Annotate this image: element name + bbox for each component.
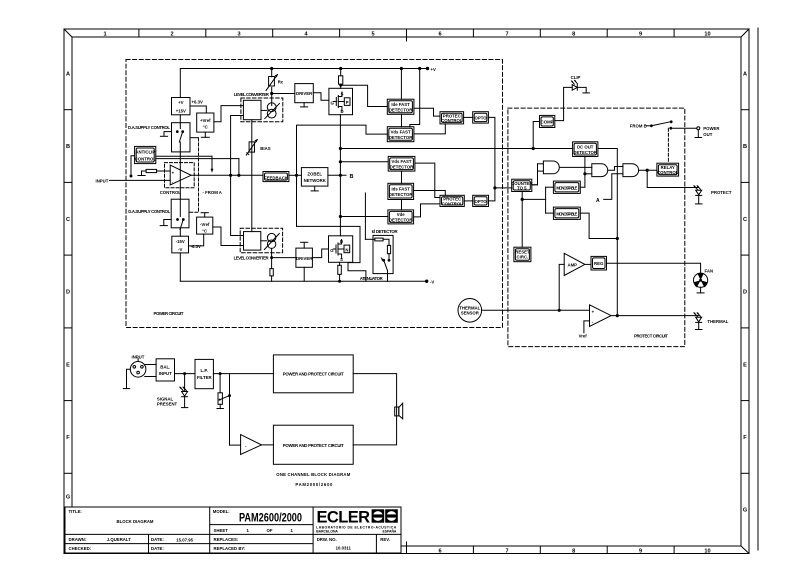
wires XLR to balanced input [145,365,156,377]
detector Vds FAST (2) [387,127,414,142]
svg-text:POWER AND PROTECT CIRCUIT: POWER AND PROTECT CIRCUIT [283,443,344,448]
svg-text:REG: REG [594,261,604,266]
wire comp to clip led [555,87,572,120]
svg-text:3: 3 [237,32,240,38]
svg-text:THERMAL: THERMAL [707,319,728,324]
relay control box [657,163,679,176]
node A wire [596,174,623,204]
svg-text:INPUT: INPUT [159,371,172,376]
svg-text:CONTROL: CONTROL [442,201,464,206]
bias trimmer [246,139,257,155]
svg-text:ATENUATOR: ATENUATOR [360,276,384,281]
label - FROM A [203,190,222,195]
protec control 1 box [440,112,464,124]
opto coupler 2 [473,195,489,206]
svg-text:SIGNAL: SIGNAL [157,396,174,401]
resistor at op-amp + input [142,169,171,175]
svg-text:OPTO: OPTO [475,199,488,204]
svg-text:10.0311: 10.0311 [336,546,352,551]
wire driver 1 to Q1 gate [313,93,329,101]
svg-text:D: D [743,290,747,296]
svg-text:-V: -V [178,247,182,252]
svg-text:FROM B: FROM B [630,124,647,129]
wire into Id detector [365,193,374,239]
svg-text:CONTROL: CONTROL [657,170,679,175]
label FROM B [630,124,647,129]
monostable 2 box [553,207,580,219]
wire inverter to channel 2 [262,444,274,446]
wire zobel to node B [328,174,346,176]
thermal reference -Vref [197,217,213,234]
detector Ids FAST (4) [388,183,414,199]
svg-text:DC OUT: DC OUT [577,144,594,149]
svg-text:BLOCK DIAGRAM: BLOCK DIAGRAM [117,519,154,524]
wire AMP to REG [585,263,591,265]
thermal reference +Vref [197,113,214,132]
wire comparator to thermal LED [611,315,699,317]
gate U3 AND [592,164,608,177]
svg-text:E: E [66,362,70,368]
wire thermal line to AMP [559,264,564,310]
power and protect circuit box 2 [273,425,353,464]
level converter 1 box [243,100,261,119]
ground at supply switch 2 [160,220,171,226]
ground under power out [695,131,702,138]
label POWER CIRCUIT [154,311,184,316]
wire detector 1 to protec control 1 [414,108,440,116]
wire anticlip to output line [156,156,239,175]
svg-text:PROTECT CIRCUIT: PROTECT CIRCUIT [634,333,668,338]
svg-text:DRIVER: DRIVER [296,256,313,261]
zobel network box [301,168,328,187]
svg-text:B: B [350,174,354,180]
svg-text:DRIVER: DRIVER [296,91,313,96]
thermal sensor [458,299,482,323]
dashed link switch to relay control [667,128,669,163]
svg-text:Ide FAST: Ide FAST [391,102,410,107]
inverter amp [230,435,262,455]
svg-text:P: P [346,100,349,105]
fan motor [694,273,708,287]
wire protec 1 to opto 1 [464,116,473,118]
svg-text:B: B [66,144,70,150]
supply box +V/+15V [172,98,191,115]
counter to 5 box [511,179,533,191]
svg-text:10: 10 [704,549,710,555]
wire detector 3 to protec control 2 [415,163,440,197]
wire Q1 drain down (output node) [339,115,341,236]
svg-text:LEVEL CONVERTER: LEVEL CONVERTER [234,255,270,260]
wires to speaker [353,374,396,445]
bias chain wire [251,120,253,232]
title block [65,507,401,553]
node +V label [431,67,437,72]
ground at op-amp + input [138,175,145,177]
DC detect line from node B [340,147,572,149]
protec control 2 box [440,195,464,206]
svg-text:7: 7 [505,32,508,38]
sense resistor (upper) [339,67,343,88]
svg-text:BARCELONA: BARCELONA [316,529,338,533]
svg-text:ESPAÑA: ESPAÑA [383,528,397,533]
svg-text:Vds FAST: Vds FAST [391,159,411,164]
svg-text:MODEL:: MODEL: [213,509,231,514]
svg-text:Vds FAST: Vds FAST [391,129,411,134]
wire converter 2 down to -V with resistor [270,248,273,281]
wire +V to detector 1 [400,67,402,99]
LED thermal [693,312,701,322]
power out switch [647,121,700,130]
wire -6.3V to -Vref [189,234,204,246]
svg-text:F: F [743,435,747,441]
svg-text:Id DETECTOR: Id DETECTOR [372,229,399,234]
level converter 2 dashed enclosure [240,228,282,253]
net +V rail [180,67,428,97]
label Id DETECTOR [372,229,399,234]
balanced input box [156,359,174,381]
label Rc [278,79,284,84]
svg-text:L.P.: L.P. [201,368,208,373]
attenuator switch [381,257,390,281]
node +6.3V label [192,99,203,104]
wire op-amp drive to level converter 2 [231,116,244,236]
net -V rail [180,280,428,282]
svg-text:7: 7 [505,549,508,555]
svg-text:DATE:: DATE: [151,546,164,551]
ground at clip led [577,87,589,93]
svg-text:-Vref: -Vref [200,222,210,227]
driver 2 box [296,248,313,267]
svg-text:OPTO: OPTO [475,116,488,121]
LED protect [693,185,701,195]
node -6.3V label [191,244,201,249]
wire protec 2 to opto 2 [464,200,472,202]
svg-text:DATE:: DATE: [151,537,164,542]
svg-text:D.A.SUPPLY CONTROL: D.A.SUPPLY CONTROL [128,125,170,130]
wire +V to detector 2 [410,67,421,126]
protect circuit dashed boundary [508,108,685,347]
wire monostable 2 to summing vertical [580,213,617,238]
op-amp AMP [564,253,585,275]
wire node B to Vde detector [340,216,388,218]
svg-text:TITLE:: TITLE: [69,509,83,514]
wire Rc to circle and driver [271,87,295,105]
control line FROM A (dashed) [190,138,199,213]
anticlip control box [135,146,157,163]
label PROTECT [711,190,732,195]
svg-text:CHECKED:: CHECKED: [69,546,92,551]
wire counter branch to monostables [522,187,553,213]
opto coupler 1 [473,112,489,123]
label PAM2000/2600 [295,482,333,487]
label SIGNAL PRESENT [157,396,178,406]
wire output sense to attenuator chain [297,226,366,281]
svg-text:TO 5: TO 5 [517,186,527,191]
wire gate U2 to gate U3 [560,166,592,168]
svg-text:CONTROL: CONTROL [160,190,182,195]
svg-text:15.07.95: 15.07.95 [176,538,193,543]
wire LP filter to split [213,373,229,375]
ground under thermal LED [695,322,702,329]
regulator REG box [591,256,607,270]
wire sense resistor to Ide detector [341,85,388,106]
node B label [350,174,354,180]
svg-text:5: 5 [371,32,374,38]
svg-text:PAM2600/2000: PAM2600/2000 [239,513,302,525]
op-amp U1 control amp (dashed enclosure) [165,163,195,188]
transistor Q1 P-MOSFET [329,88,353,114]
svg-text:BIAS: BIAS [260,146,270,151]
label D.A.SUPPLY CONTROL 2 [128,209,170,214]
svg-text:10: 10 [704,32,710,38]
wire detector 2 to protec control 1 [414,124,445,134]
Id detector box [373,235,393,273]
svg-text:COMP: COMP [541,119,554,124]
svg-text:D: D [66,290,70,296]
wire counter to gate U2 [532,184,538,186]
comparator COMP box [540,115,555,127]
bias rail through op-amp [179,152,181,199]
svg-text:DRAWN:: DRAWN: [69,537,87,542]
svg-text:DETECTOR: DETECTOR [389,217,413,222]
ground at supply switch 1 [160,132,171,137]
svg-text:MONOSTABLE: MONOSTABLE [556,185,577,190]
LED clip [571,80,577,90]
wire -Vref to level converter 2 [213,227,244,246]
svg-text:SHEET: SHEET [214,528,229,533]
lower supply area: D.A. supply control switch 2 [171,199,189,236]
detector Vds FAST (3) [388,156,415,171]
svg-text:-15V: -15V [176,239,185,244]
label LEVEL CONVERTER (upper) [234,92,270,97]
svg-text:Vde: Vde [397,212,405,217]
wire anticlip to input node [130,156,135,177]
wire REG to fan [607,263,701,273]
svg-text:NETWORK: NETWORK [304,178,327,183]
wire converter 2 to driver 2 [272,257,296,259]
svg-text:POWER AND PROTECT CIRCUIT: POWER AND PROTECT CIRCUIT [283,372,344,377]
wire output sense vertical [297,125,388,226]
node POWER OUT label [703,126,720,137]
svg-text:D.A.SUPPLY CONTROL: D.A.SUPPLY CONTROL [128,209,170,214]
svg-text:N: N [345,247,348,252]
svg-text:DETECTOR: DETECTOR [389,192,413,197]
XLR input connector [130,358,146,377]
wire detector 3 to detector 4 [401,171,403,183]
svg-text:PRESENT: PRESENT [157,402,178,407]
level converter 2 box [244,232,261,251]
wire Ids detector to Vde detector [401,200,403,210]
svg-text:A: A [743,72,747,78]
svg-text:8: 8 [572,32,575,38]
wire driver 2 to Q2 gate [312,249,328,258]
driver 1 box [295,84,314,103]
label FAN [705,268,714,273]
svg-text:AMP: AMP [568,262,578,267]
supply box -15V/-V [172,236,189,253]
svg-text:SENSOR: SENSOR [461,310,480,315]
wire driver 2 to -V [303,267,305,281]
svg-text:OUT: OUT [703,132,712,137]
svg-text:PROTECT: PROTECT [711,190,732,195]
gate U2 AND [532,161,560,185]
svg-text:J.QUERALT: J.QUERALT [107,537,131,542]
wire detector 4 to protec control 2 [414,191,446,196]
control arrow onto output [211,156,214,173]
label ONE CHANNEL BLOCK DIAGRAM [276,472,350,477]
level converter 1 dashed enclosure [241,98,283,122]
wire input to op-amp [110,179,171,181]
svg-text:-V: -V [430,280,434,285]
power and protect circuit box 1 [273,355,353,393]
ground at XLR [123,369,130,388]
wire +6.3V to +Vref [190,106,206,113]
node Vref [579,321,590,339]
svg-text:FILTER: FILTER [197,375,213,380]
svg-text:C: C [66,217,70,223]
wire bal input to LP filter [175,373,196,375]
wire -V rail drop [179,253,181,281]
wire detector 1 to detector 2 [401,114,403,126]
svg-text:CIRC.: CIRC. [517,254,529,259]
svg-text:C: C [743,217,747,223]
svg-text:A: A [66,72,70,78]
wire Vde detector to protec control 2 [414,204,440,217]
node -V label [430,280,434,285]
comparator U5 [590,305,612,327]
wire DC OUT to summing vertical [598,149,619,317]
speaker [395,403,403,419]
resistor in Id detector (horizontal) [375,238,389,245]
wire rail to supply switch [179,115,181,123]
wire split vertical [229,374,231,446]
svg-text:2: 2 [170,32,173,38]
resistor in Id detector (vertical) [387,245,390,259]
svg-text:Rc: Rc [278,79,284,84]
wire +Vref to level converter [214,106,244,122]
ground under protect LED [695,195,702,204]
svg-text:9: 9 [639,32,642,38]
svg-text:+V: +V [431,67,437,72]
gate U4 AND [623,164,639,177]
svg-text:8: 8 [572,549,575,555]
wire thermal sensor to comparator [482,309,590,311]
svg-text:POWER CIRCUIT: POWER CIRCUIT [154,311,184,316]
svg-text:REPLACED BY:: REPLACED BY: [214,546,246,551]
svg-text:- FROM A: - FROM A [203,190,222,195]
svg-text:DETECTOR: DETECTOR [389,107,413,112]
svg-text:+6.3V: +6.3V [192,99,203,104]
ground under +Vref [201,132,209,137]
level converter 1 variable element [261,103,280,119]
LED signal present [179,374,187,397]
svg-text:+Vref: +Vref [200,118,211,123]
reset circuit box [514,247,531,262]
label BIAS [260,146,270,151]
wire counter to reset circ [521,192,523,248]
label PROTECT CIRCUIT [634,333,668,338]
label CLIP [571,75,581,80]
svg-text:PAM2000/2600: PAM2000/2600 [295,482,333,487]
label D.A.SUPPLY CONTROL [128,125,170,130]
svg-text:6: 6 [438,32,441,38]
svg-text:°C: °C [202,228,207,233]
svg-text:Vref: Vref [579,333,588,338]
svg-text:FEEDBACK: FEEDBACK [264,175,289,180]
node INPUT label [132,354,145,359]
svg-text:OF: OF [267,528,273,533]
detector Vde [388,210,414,224]
wire optos to counter [488,117,511,200]
svg-text:B: B [743,144,747,150]
svg-text:ONE CHANNEL BLOCK DIAGRAM: ONE CHANNEL BLOCK DIAGRAM [276,472,350,477]
svg-text:G: G [743,508,747,514]
wire feedback to zobel [289,174,302,176]
op-amp output wire [191,174,298,176]
wire comp to DC line [533,122,539,149]
svg-text:ECLER: ECLER [317,509,371,527]
DC OUT detector box [573,142,598,157]
ground under zobel [311,186,318,191]
level converter 2 variable element [261,233,280,249]
svg-text:CONTROL: CONTROL [135,156,157,161]
supply bar above -Vref [201,213,208,217]
level potentiometer [217,374,230,409]
monostable 1 box [553,181,580,193]
svg-text:F: F [66,435,70,441]
wire DC OUT down to gate2 / mono1 [580,157,592,188]
svg-text:BAL.: BAL. [160,365,170,370]
svg-text:DETECTOR: DETECTOR [573,150,597,155]
label LEVEL CONVERTER (lower) [234,255,270,260]
svg-text:-6.3V: -6.3V [191,244,201,249]
svg-text:CONTROL: CONTROL [441,118,463,123]
resistor Rc [266,67,278,90]
svg-text:9: 9 [639,549,642,555]
svg-text:E: E [743,362,747,368]
svg-text:CLIP: CLIP [571,75,581,80]
svg-text:ZOBEL: ZOBEL [307,172,322,177]
svg-text:REV.: REV. [380,537,390,542]
svg-text:FAN: FAN [705,268,714,273]
op-amp U1 triangle [170,165,191,185]
D.A. supply control switch 1 [172,123,191,152]
svg-text:+V: +V [178,100,184,105]
svg-text:ANTICLIP: ANTICLIP [135,150,155,155]
wire gate U3 to gate U4 [609,167,623,171]
LP filter box [195,359,213,388]
svg-text:INPUT: INPUT [96,178,109,183]
label THERMAL [707,319,728,324]
transistor Q2 N-MOSFET [329,236,353,262]
svg-text:POWER: POWER [703,126,720,131]
label ATENUATOR [360,276,384,281]
ground under fan [697,287,704,293]
svg-text:G: G [66,495,70,501]
ground under driver 1 [301,103,308,107]
svg-text:6: 6 [438,549,441,555]
svg-text:+15V: +15V [176,108,186,113]
node INPUT [96,178,109,183]
svg-text:1: 1 [103,32,106,38]
ground under signal LED [181,397,187,408]
wire gate U4 to relay control and protect LED [639,169,698,187]
svg-text:A: A [596,198,600,204]
feedback block [263,172,289,182]
label CONTROL [160,190,182,195]
svg-text:LEVEL CONVERTER: LEVEL CONVERTER [234,92,270,97]
source resistor (lower) [338,262,342,282]
